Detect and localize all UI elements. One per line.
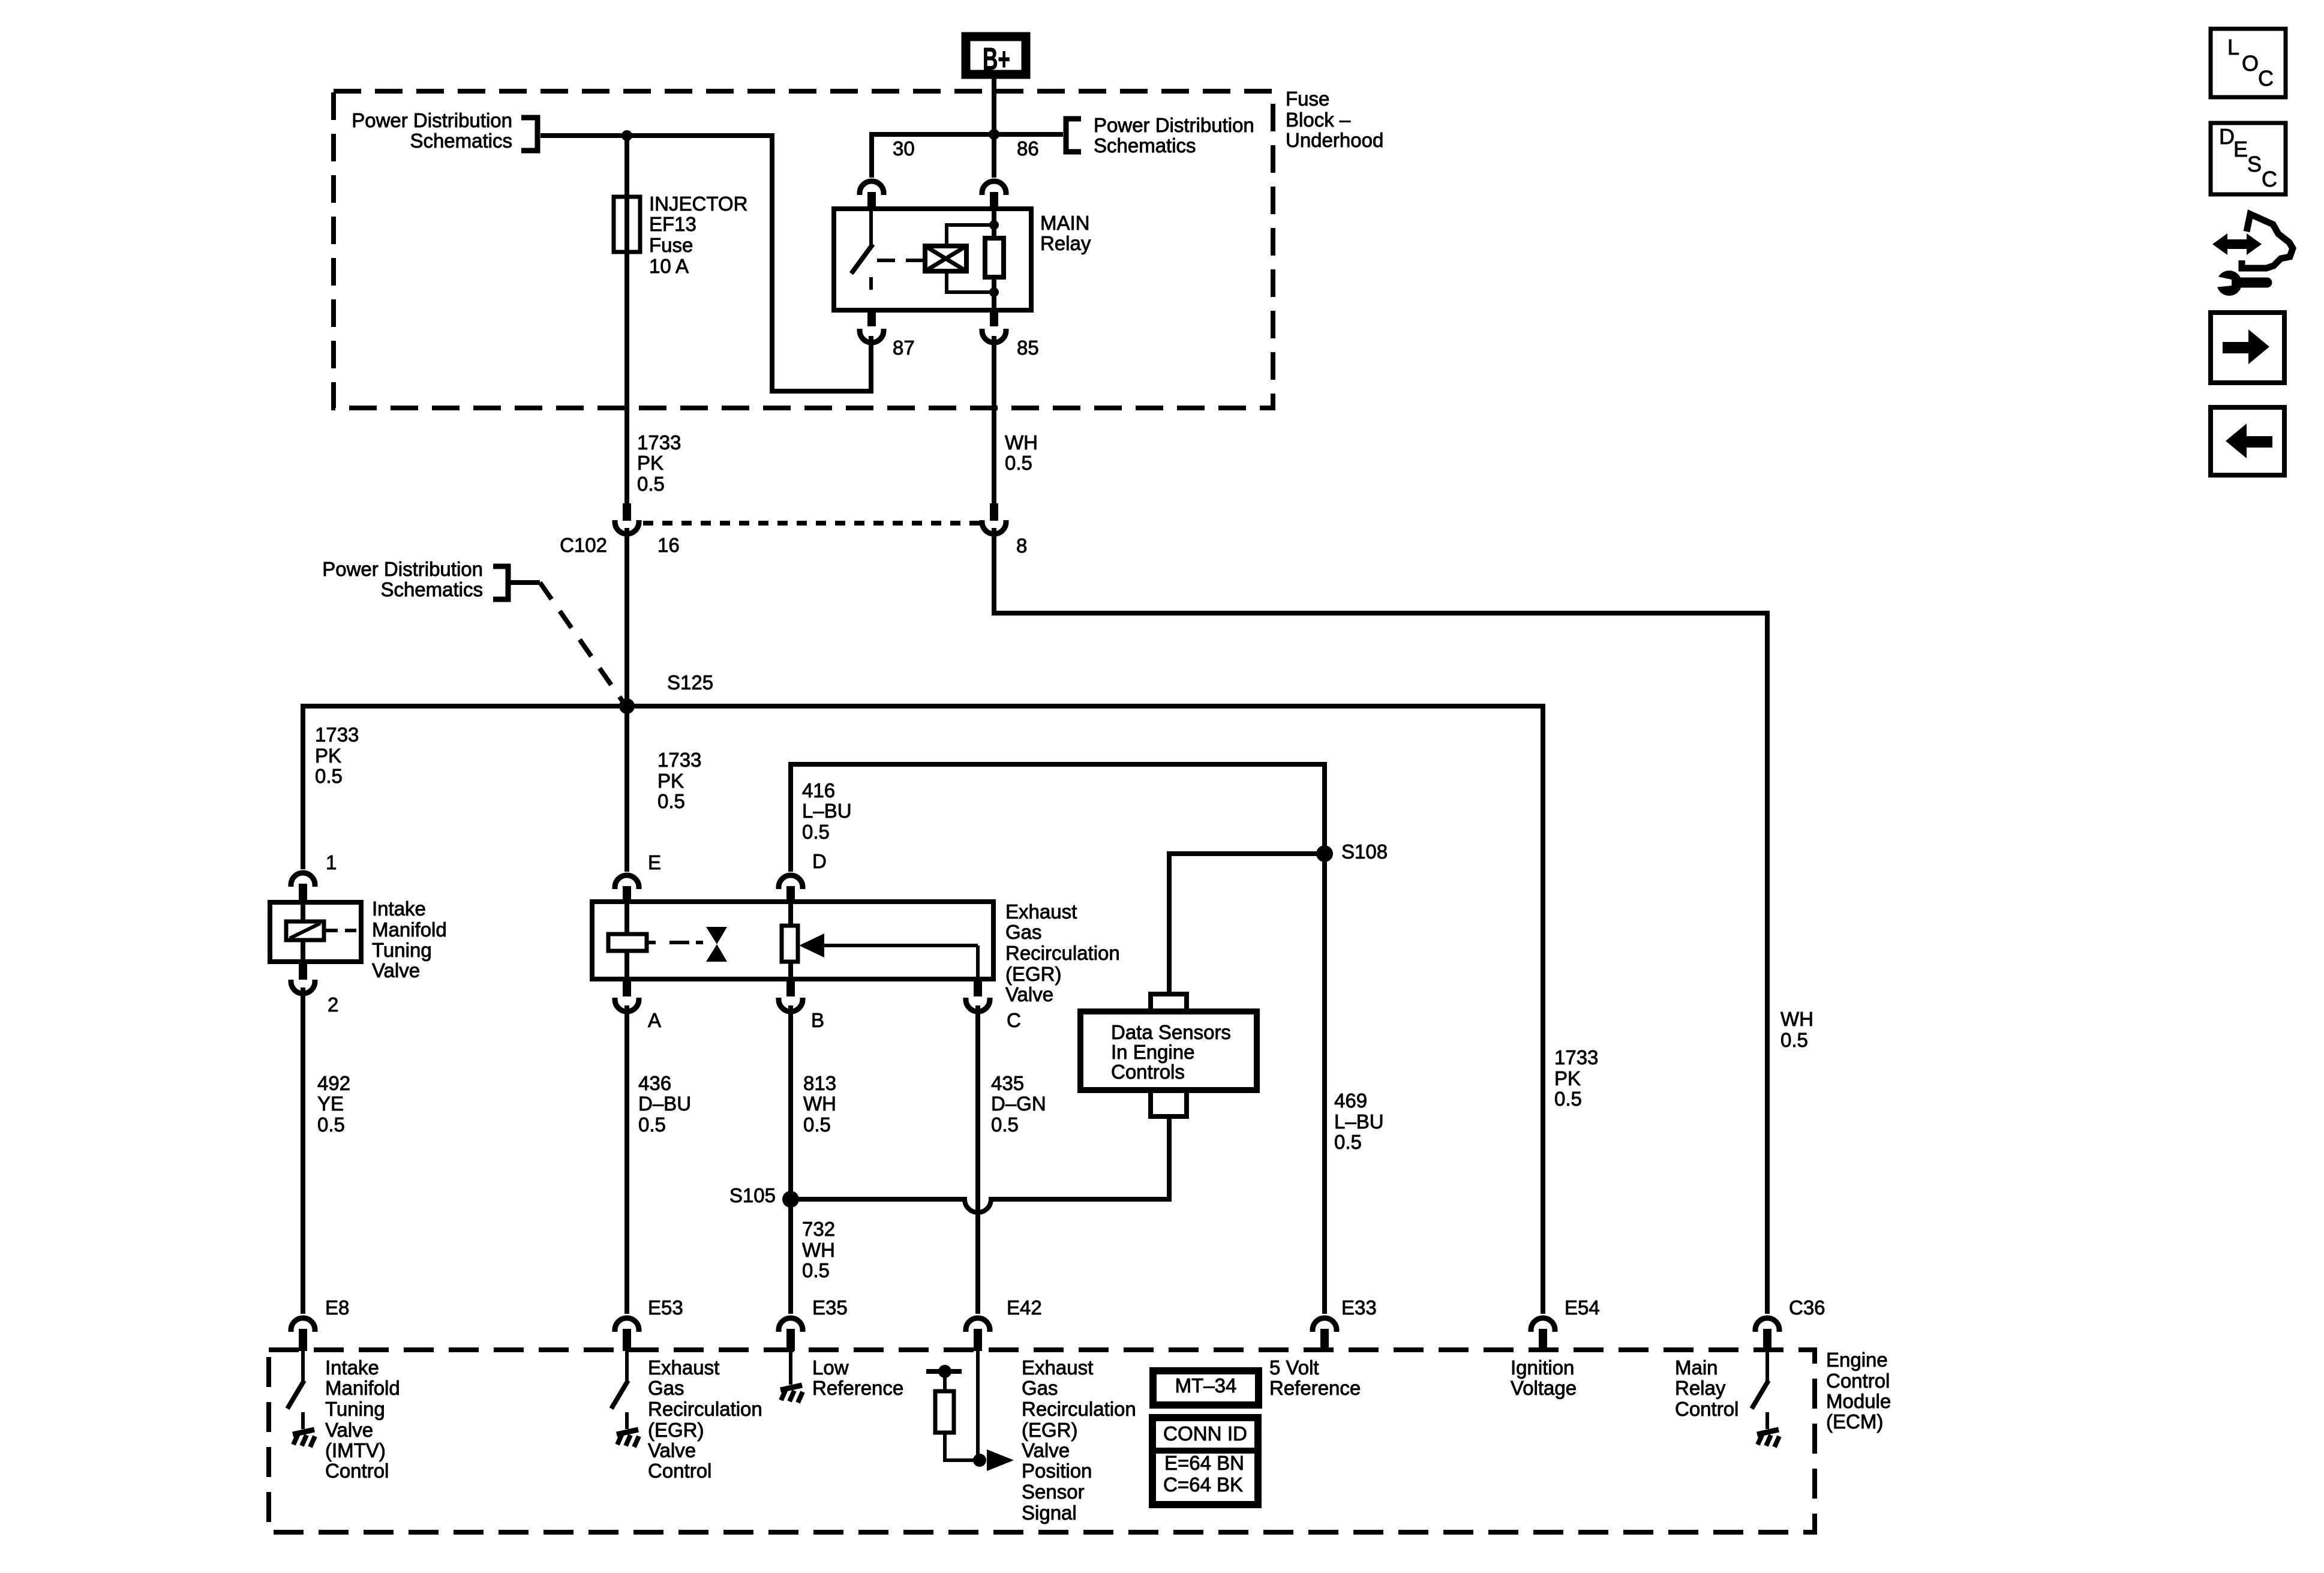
svg-text:Intake: Intake (325, 1356, 379, 1379)
svg-text:Controls: Controls (1111, 1061, 1185, 1083)
svg-text:Valve: Valve (1005, 983, 1053, 1005)
svg-text:Gas: Gas (1022, 1377, 1058, 1399)
svg-text:0.5: 0.5 (991, 1113, 1019, 1136)
svg-text:(EGR): (EGR) (1022, 1419, 1078, 1441)
svg-text:E53: E53 (648, 1296, 683, 1319)
svg-text:435: 435 (991, 1072, 1024, 1094)
svg-text:1733: 1733 (637, 431, 681, 454)
svg-text:D: D (2219, 124, 2235, 149)
svg-text:WH: WH (1780, 1008, 1813, 1030)
svg-text:Manifold: Manifold (325, 1377, 400, 1399)
svg-text:Voltage: Voltage (1511, 1377, 1577, 1399)
svg-text:L–BU: L–BU (1334, 1110, 1384, 1133)
svg-text:Gas: Gas (648, 1377, 684, 1399)
svg-text:WH: WH (1005, 431, 1038, 454)
svg-text:Control: Control (1675, 1398, 1739, 1420)
svg-text:MT–34: MT–34 (1175, 1374, 1237, 1397)
svg-text:8: 8 (1016, 535, 1027, 557)
svg-text:0.5: 0.5 (1005, 452, 1032, 474)
svg-text:D: D (812, 850, 827, 872)
svg-text:WH: WH (802, 1239, 835, 1261)
svg-text:E35: E35 (812, 1296, 848, 1319)
svg-text:Recirculation: Recirculation (648, 1398, 762, 1420)
svg-text:CONN ID: CONN ID (1163, 1422, 1247, 1445)
svg-text:1733: 1733 (315, 724, 359, 746)
svg-text:0.5: 0.5 (1554, 1088, 1582, 1110)
svg-text:WH: WH (803, 1092, 836, 1115)
svg-text:0.5: 0.5 (657, 790, 685, 812)
svg-text:Intake: Intake (372, 897, 426, 920)
svg-text:Reference: Reference (812, 1377, 903, 1399)
svg-text:30: 30 (893, 137, 915, 160)
svg-text:16: 16 (657, 534, 680, 556)
svg-text:Valve: Valve (648, 1439, 696, 1461)
svg-text:C: C (2258, 66, 2274, 91)
svg-text:L–BU: L–BU (802, 800, 852, 822)
svg-text:416: 416 (802, 779, 835, 801)
svg-text:0.5: 0.5 (803, 1113, 831, 1136)
svg-text:0.5: 0.5 (317, 1113, 345, 1136)
svg-text:Control: Control (1826, 1370, 1890, 1392)
svg-text:Valve: Valve (372, 959, 420, 981)
svg-text:B: B (811, 1009, 824, 1031)
svg-text:Tuning: Tuning (325, 1398, 385, 1420)
svg-text:E33: E33 (1341, 1296, 1377, 1319)
svg-text:E54: E54 (1565, 1296, 1600, 1319)
svg-text:(ECM): (ECM) (1826, 1410, 1883, 1433)
svg-text:732: 732 (802, 1218, 835, 1240)
svg-text:E=64 BN: E=64 BN (1164, 1452, 1244, 1474)
svg-text:1733: 1733 (657, 749, 701, 771)
svg-text:86: 86 (1017, 137, 1039, 160)
svg-text:Schematics: Schematics (1094, 134, 1196, 157)
svg-text:Low: Low (812, 1356, 849, 1379)
svg-text:C: C (2262, 167, 2277, 191)
svg-text:813: 813 (803, 1072, 836, 1094)
svg-text:Block –: Block – (1286, 109, 1351, 131)
svg-text:Underhood: Underhood (1286, 129, 1383, 151)
svg-text:Recirculation: Recirculation (1022, 1398, 1136, 1420)
svg-text:EF13: EF13 (649, 213, 696, 235)
svg-text:Module: Module (1826, 1390, 1891, 1412)
svg-text:C102: C102 (560, 534, 607, 556)
svg-text:D–GN: D–GN (991, 1092, 1046, 1115)
svg-text:85: 85 (1017, 337, 1039, 359)
svg-text:Engine: Engine (1826, 1349, 1888, 1371)
svg-text:E: E (648, 851, 661, 873)
svg-text:Fuse: Fuse (649, 234, 693, 256)
svg-text:Signal: Signal (1022, 1502, 1077, 1524)
svg-text:Recirculation: Recirculation (1005, 942, 1120, 964)
svg-text:MAIN: MAIN (1040, 212, 1090, 234)
svg-text:0.5: 0.5 (315, 765, 343, 787)
svg-text:2: 2 (328, 993, 338, 1016)
svg-text:PK: PK (657, 770, 684, 792)
svg-text:0.5: 0.5 (1334, 1131, 1362, 1153)
svg-text:S125: S125 (667, 671, 713, 694)
svg-text:(EGR): (EGR) (1005, 963, 1062, 985)
svg-text:Tuning: Tuning (372, 939, 432, 961)
svg-text:Main: Main (1675, 1356, 1718, 1379)
svg-text:Reference: Reference (1269, 1377, 1361, 1399)
svg-text:Exhaust: Exhaust (648, 1356, 719, 1379)
svg-text:S105: S105 (729, 1184, 776, 1206)
svg-text:C=64 BK: C=64 BK (1163, 1473, 1243, 1496)
svg-text:E: E (2233, 137, 2248, 161)
svg-text:Power Distribution: Power Distribution (322, 558, 483, 580)
svg-text:1733: 1733 (1554, 1046, 1598, 1068)
svg-text:Relay: Relay (1675, 1377, 1726, 1399)
svg-text:Control: Control (648, 1460, 711, 1482)
svg-text:436: 436 (638, 1072, 671, 1094)
svg-text:Exhaust: Exhaust (1005, 900, 1077, 923)
svg-text:C36: C36 (1789, 1296, 1825, 1319)
svg-text:B+: B+ (983, 42, 1010, 77)
svg-text:Control: Control (325, 1460, 389, 1482)
svg-text:0.5: 0.5 (637, 473, 665, 495)
svg-text:O: O (2242, 51, 2259, 76)
svg-text:S: S (2247, 152, 2262, 176)
svg-text:87: 87 (893, 337, 915, 359)
svg-text:Data Sensors: Data Sensors (1111, 1021, 1231, 1043)
svg-text:Position: Position (1022, 1460, 1092, 1482)
svg-text:0.5: 0.5 (802, 1259, 830, 1281)
svg-text:492: 492 (317, 1072, 350, 1094)
svg-text:L: L (2227, 35, 2239, 59)
svg-text:D–BU: D–BU (638, 1092, 691, 1115)
svg-text:Power Distribution: Power Distribution (1094, 114, 1254, 136)
svg-text:Valve: Valve (1022, 1439, 1070, 1461)
svg-text:Fuse: Fuse (1286, 88, 1329, 110)
svg-text:INJECTOR: INJECTOR (649, 193, 747, 215)
svg-text:Sensor: Sensor (1022, 1481, 1085, 1503)
svg-text:Gas: Gas (1005, 921, 1042, 943)
svg-text:10 A: 10 A (649, 255, 689, 277)
svg-text:(EGR): (EGR) (648, 1419, 704, 1441)
svg-text:(IMTV): (IMTV) (325, 1439, 386, 1461)
svg-text:0.5: 0.5 (802, 821, 830, 843)
svg-text:Schematics: Schematics (380, 578, 483, 601)
svg-text:0.5: 0.5 (1780, 1029, 1808, 1051)
svg-text:E8: E8 (325, 1296, 349, 1319)
svg-text:E42: E42 (1007, 1296, 1042, 1319)
svg-text:Power Distribution: Power Distribution (352, 109, 512, 131)
svg-text:Valve: Valve (325, 1419, 373, 1441)
svg-text:A: A (648, 1009, 661, 1031)
svg-text:1: 1 (326, 851, 337, 873)
svg-text:5 Volt: 5 Volt (1269, 1356, 1319, 1379)
svg-text:S108: S108 (1341, 840, 1388, 863)
svg-text:Schematics: Schematics (410, 130, 512, 152)
svg-text:C: C (1007, 1009, 1021, 1031)
svg-text:0.5: 0.5 (638, 1113, 666, 1136)
svg-text:In Engine: In Engine (1111, 1041, 1194, 1063)
svg-text:YE: YE (317, 1092, 344, 1115)
svg-text:PK: PK (315, 745, 341, 767)
svg-text:PK: PK (637, 452, 663, 474)
svg-text:Exhaust: Exhaust (1022, 1356, 1093, 1379)
svg-text:469: 469 (1334, 1089, 1367, 1112)
svg-text:Relay: Relay (1040, 232, 1091, 254)
svg-text:Ignition: Ignition (1511, 1356, 1574, 1379)
svg-text:Manifold: Manifold (372, 918, 447, 941)
svg-text:PK: PK (1554, 1067, 1581, 1089)
